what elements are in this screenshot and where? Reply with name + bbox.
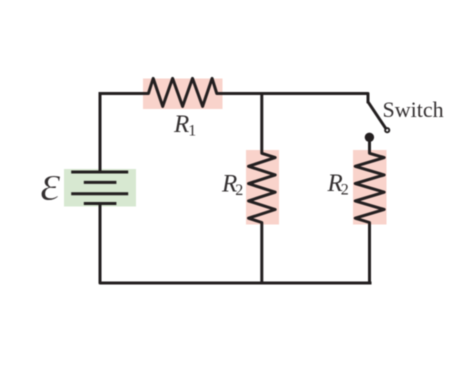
svg-text:R2: R2 <box>327 170 349 199</box>
svg-text:R2: R2 <box>221 170 243 199</box>
svg-text:R1: R1 <box>173 111 196 140</box>
svg-text:Switch: Switch <box>383 97 444 122</box>
svg-text:ε: ε <box>40 155 61 212</box>
